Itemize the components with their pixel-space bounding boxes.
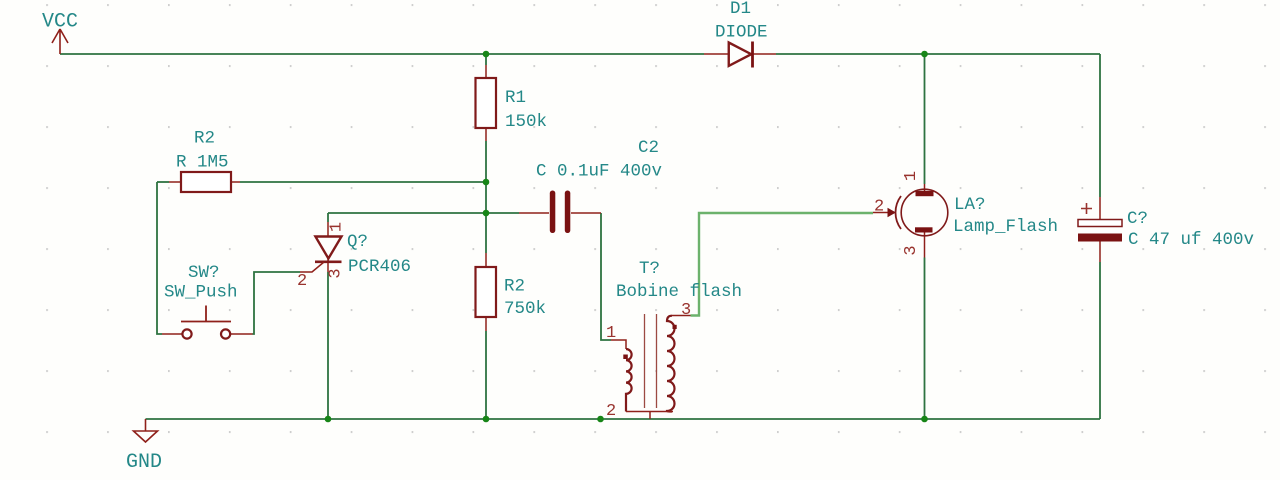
junction bottom rail at lamp — [921, 416, 928, 423]
wire bottom rail GND net — [146, 418, 1101, 420]
resistor R1 150k — [476, 65, 548, 141]
svg-text:C?: C? — [1127, 209, 1148, 229]
junction top rail at R1 — [483, 51, 490, 58]
primary winding — [626, 349, 632, 412]
svg-text:R 1M5: R 1M5 — [176, 153, 229, 173]
svg-text:Q?: Q? — [347, 232, 368, 252]
svg-text:1: 1 — [328, 222, 347, 232]
svg-text:150k: 150k — [505, 112, 547, 132]
svg-text:DIODE: DIODE — [715, 23, 768, 43]
junction node y182 — [483, 179, 490, 186]
svg-text:3: 3 — [327, 268, 346, 278]
svg-text:Lamp_Flash: Lamp_Flash — [953, 217, 1058, 237]
wire R2 750k bottom to rail — [485, 331, 487, 419]
ground symbol GND — [126, 419, 162, 474]
junction bottom rail at transformer — [597, 416, 604, 423]
svg-text:750k: 750k — [504, 299, 546, 319]
wire top rail VCC net — [60, 53, 704, 55]
svg-text:SW?: SW? — [188, 263, 220, 283]
diode D1 — [704, 0, 776, 68]
wire lamp cathode to rail — [924, 258, 926, 420]
svg-text:1: 1 — [606, 324, 616, 343]
wire switch to gate — [253, 272, 301, 334]
svg-text:2: 2 — [297, 272, 307, 291]
wire C2 right to transformer pin1 — [601, 213, 611, 340]
svg-text:D1: D1 — [730, 0, 751, 19]
transformer bottom bar and pin2 — [626, 412, 673, 420]
svg-text:PCR406: PCR406 — [348, 257, 411, 277]
svg-text:Bobine flash: Bobine flash — [616, 282, 742, 302]
thyristor Q? PCR406 — [297, 222, 411, 291]
secondary polarity dot — [673, 325, 677, 329]
svg-text:C 47 uf 400v: C 47 uf 400v — [1128, 230, 1254, 250]
wire lamp branch from top rail — [924, 54, 926, 184]
wire x486 to C2 — [486, 212, 519, 214]
junction bottom rail at R2 750k — [483, 416, 490, 423]
lamp trigger electrode — [873, 212, 894, 214]
wire right vertical to C? — [1099, 54, 1101, 197]
wire R1 top — [485, 54, 487, 65]
svg-text:R2: R2 — [504, 277, 525, 297]
wire Q anode stub — [327, 213, 329, 222]
switch SW? SW_Push — [162, 263, 253, 339]
svg-text:2: 2 — [606, 402, 616, 421]
wire R1 bottom / R2 750k top — [485, 141, 487, 253]
svg-text:C 0.1uF 400v: C 0.1uF 400v — [536, 162, 662, 182]
wire transformer pin3 to lamp trigger (bright) — [691, 213, 874, 316]
svg-text:C2: C2 — [638, 138, 659, 158]
svg-text:R2: R2 — [194, 129, 215, 149]
transformer pin3 stub — [672, 315, 691, 317]
junction bottom rail at Q — [325, 416, 332, 423]
resistor R2 R_1M5 — [169, 129, 240, 193]
resistor R2 750k — [476, 253, 547, 331]
wire Q cathode to rail — [327, 272, 329, 419]
svg-text:R1: R1 — [505, 88, 526, 108]
svg-text:T?: T? — [639, 259, 660, 279]
junction top rail at lamp branch — [921, 51, 928, 58]
svg-text:VCC: VCC — [42, 11, 78, 34]
svg-text:LA?: LA? — [954, 195, 986, 215]
svg-text:2: 2 — [874, 198, 884, 217]
wire node y182 from R2 1M5 to x486 — [240, 181, 486, 183]
lamp LA? Lamp_Flash — [873, 171, 1058, 258]
svg-text:3: 3 — [681, 301, 691, 320]
wire top rail right of D1 — [776, 53, 1100, 55]
svg-text:3: 3 — [902, 245, 921, 255]
svg-text:1: 1 — [902, 171, 921, 181]
wire C? bottom to rail — [1099, 262, 1101, 419]
svg-text:SW_Push: SW_Push — [164, 283, 238, 303]
svg-text:GND: GND — [126, 451, 162, 474]
primary polarity dot — [623, 355, 628, 360]
capacitor C? 47uF 400v — [1078, 197, 1254, 262]
secondary winding — [667, 316, 675, 412]
junction node y213 — [483, 210, 490, 217]
wire left branch down to switch — [157, 181, 169, 183]
capacitor C2 0.1uF — [519, 138, 662, 233]
transformer T? Bobine flash — [606, 259, 742, 421]
transformer core — [645, 314, 657, 408]
power symbol VCC — [42, 11, 78, 55]
wire mid net y213 Q anode to x486 — [328, 212, 486, 214]
